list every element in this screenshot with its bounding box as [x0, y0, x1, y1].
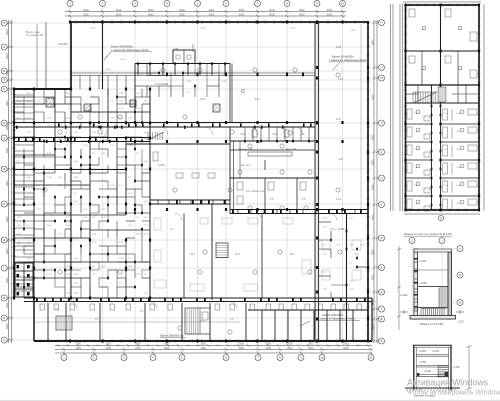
svg-text:см. серию 1.432: см. серию 1.432	[26, 35, 44, 37]
svg-text:6000: 6000	[299, 13, 305, 16]
exterior bottom wall	[34, 340, 372, 342]
svg-text:6000: 6000	[6, 302, 9, 308]
svg-text:Разрез 1-1 М 1:50: Разрез 1-1 М 1:50	[420, 322, 444, 326]
axis bubble top 8	[284, 0, 290, 6]
svg-text:Л: Л	[381, 121, 383, 125]
stair flight upper	[439, 288, 448, 308]
axis bubble bottom 1	[61, 355, 67, 361]
svg-text:6000: 6000	[6, 100, 9, 106]
note annotation right hall	[329, 45, 367, 70]
svg-text:Н: Н	[380, 66, 382, 70]
svg-text:+3,300: +3,300	[419, 260, 427, 263]
note annotation upper left	[104, 44, 245, 93]
svg-text:16,4: 16,4	[330, 228, 335, 231]
axis bubble top 6	[223, 0, 229, 6]
svg-text:3000: 3000	[201, 343, 207, 346]
stair block south-west	[56, 316, 72, 330]
axis bubble left П	[1, 20, 7, 26]
svg-text:6000: 6000	[269, 9, 275, 12]
wing upper room inner partitions	[406, 51, 480, 103]
svg-text:4,200: 4,200	[120, 59, 126, 61]
section detail left wall	[413, 345, 415, 390]
svg-text:Сан.узел 2АБ: Сан.узел 2АБ	[238, 148, 253, 151]
cluster top wall	[230, 149, 315, 151]
upper rooms west wall	[134, 64, 136, 123]
stair detail bubble B	[457, 272, 463, 278]
svg-text:Л: Л	[3, 78, 5, 82]
svg-text:1,20: 1,20	[240, 134, 245, 136]
upper rooms door marks	[158, 72, 196, 88]
svg-text:36,4: 36,4	[235, 253, 240, 256]
second corridor wall north	[14, 137, 150, 139]
svg-text:3000: 3000	[135, 343, 141, 346]
section detail ground line	[405, 387, 460, 389]
wing wall y103	[406, 102, 480, 104]
stair detail bubble left	[409, 238, 415, 244]
upper shaft block	[173, 50, 195, 64]
svg-text:6000: 6000	[239, 13, 245, 16]
axis bubble right 2	[379, 65, 385, 71]
svg-text:1,20: 1,20	[272, 134, 277, 136]
svg-text:3000: 3000	[287, 343, 293, 346]
stair detail left dim line	[397, 246, 401, 330]
wing middle wall horizontal	[406, 50, 480, 52]
svg-text:4,200: 4,200	[350, 30, 356, 32]
wing bottom dimension	[404, 213, 480, 215]
wing room labels	[414, 29, 463, 205]
svg-text:Д: Д	[3, 238, 5, 242]
svg-text:В: В	[381, 317, 383, 321]
top-left dim line x37	[36, 24, 38, 89]
svg-text:6000: 6000	[371, 274, 374, 280]
axis bubble top 2	[100, 0, 106, 6]
svg-text:с шагом по Фрагменту Плана: с шагом по Фрагменту Плана	[318, 316, 355, 320]
exterior window ticks bottom wall	[40, 339, 364, 343]
axis bubble top 3	[132, 0, 138, 6]
top dimension lines	[65, 10, 346, 18]
svg-text:3000: 3000	[343, 343, 349, 346]
svg-text:6000: 6000	[239, 9, 245, 12]
stair block centre	[216, 243, 228, 258]
axis bubble left Е	[1, 201, 7, 207]
axis bubble right 8	[379, 235, 385, 241]
exterior window ticks right wall	[366, 28, 370, 334]
service band wall south	[230, 213, 368, 215]
svg-text:А: А	[3, 338, 5, 342]
exterior window ticks top wall	[76, 20, 364, 24]
svg-text:-1,200: -1,200	[337, 227, 345, 231]
svg-text:6000: 6000	[6, 323, 9, 329]
closet row wall north	[150, 199, 230, 201]
mid vertical wall	[211, 204, 213, 300]
svg-text:6000: 6000	[148, 9, 154, 12]
svg-text:Разрез по лест. кл. (осям 4-1): Разрез по лест. кл. (осям 4-1) М 1:50	[404, 232, 452, 236]
service band partitions	[158, 200, 355, 214]
column grid verticals	[70, 7, 343, 345]
upper rooms east wall	[229, 64, 231, 123]
svg-text:6000: 6000	[116, 13, 122, 16]
stair detail top slab	[414, 249, 452, 252]
svg-text:Чтобы активировать Windows, пе: Чтобы активировать Windows, перейдите в …	[407, 388, 500, 396]
axis bubble bottom 7	[255, 355, 261, 361]
svg-text:150,2: 150,2	[200, 98, 207, 101]
svg-text:6000: 6000	[371, 184, 374, 190]
stair detail bottom ticks	[400, 310, 464, 314]
svg-text:3000: 3000	[164, 343, 170, 346]
axis bubble top 4	[164, 0, 170, 6]
corridor door blobs north	[16, 123, 366, 301]
section detail texts	[419, 351, 460, 373]
wing column markers	[404, 4, 480, 212]
wing room furniture	[407, 109, 477, 211]
svg-text:3000: 3000	[266, 343, 272, 346]
svg-text:11: 11	[369, 356, 372, 360]
svg-text:П: П	[3, 21, 5, 25]
south corridor wall south	[24, 301, 372, 303]
left dim rotated numbers	[6, 29, 9, 329]
stair detail right bubble stems	[452, 249, 458, 303]
svg-text:гард. 15,2: гард. 15,2	[240, 165, 251, 167]
axis bubble top 7	[255, 0, 261, 6]
axis bubble right 9	[379, 265, 385, 271]
bottom dimension lines	[55, 344, 373, 354]
hall room labels	[55, 78, 359, 323]
closet row dividers	[245, 127, 309, 141]
svg-text:6000: 6000	[179, 13, 185, 16]
wing wall y85	[406, 84, 480, 86]
exterior right wall	[367, 22, 369, 341]
axis bubble bottom 9	[298, 355, 304, 361]
svg-text:+1,650: +1,650	[419, 362, 427, 364]
svg-text:П: П	[380, 21, 382, 25]
svg-text:+1,650: +1,650	[419, 282, 427, 285]
axis bubble right 12	[379, 316, 385, 322]
svg-text:В: В	[3, 296, 5, 300]
svg-text:З: З	[3, 136, 5, 140]
svg-text:4,200: 4,200	[105, 69, 111, 71]
svg-text:6000: 6000	[83, 9, 89, 12]
axis bubble right 11	[379, 306, 385, 312]
axis bubble right 13	[379, 338, 385, 344]
column grid horizontals	[7, 23, 372, 340]
stair block south-centre	[185, 308, 210, 334]
south-east rooms labels	[322, 218, 365, 291]
svg-text:6000: 6000	[371, 159, 374, 165]
svg-text:10: 10	[320, 356, 324, 360]
svg-text:+0,000: +0,000	[160, 82, 169, 86]
svg-text:6000: 6000	[6, 147, 9, 153]
svg-text:6000: 6000	[6, 216, 9, 222]
svg-text:6000: 6000	[6, 180, 9, 186]
left zone partition walls	[14, 89, 150, 298]
svg-text:И: И	[3, 121, 5, 125]
svg-text:Ж: Ж	[380, 236, 383, 240]
wing stair hatch	[413, 92, 437, 103]
svg-text:Балки 300х600(h): Балки 300х600(h)	[332, 55, 354, 59]
svg-text:Проем 1500х600 (Н): Проем 1500х600 (Н)	[160, 335, 184, 338]
left zone main partitions	[14, 89, 150, 298]
svg-text:Б: Б	[381, 339, 383, 343]
axis bubble left Л	[1, 77, 7, 83]
axis bubble bottom 4	[150, 355, 156, 361]
svg-text:3000: 3000	[135, 347, 141, 350]
section detail floor lines	[416, 355, 448, 377]
svg-text:Проем 1500х600: Проем 1500х600	[322, 313, 343, 317]
axis bubble right 3	[379, 75, 385, 81]
top-left tiny note	[26, 32, 44, 37]
axis bubble bottom 3	[121, 355, 127, 361]
south room row top wall	[248, 309, 368, 311]
svg-text:4,200: 4,200	[90, 28, 96, 30]
bottom room partitions	[48, 303, 353, 341]
svg-text:Б: Б	[459, 273, 461, 277]
axis bubble right 7	[379, 202, 385, 208]
axis bubble right 4	[379, 120, 385, 126]
room number circles	[43, 68, 342, 334]
svg-text:1,20: 1,20	[300, 134, 305, 136]
right wing window ticks	[404, 3, 481, 211]
section detail top slab	[413, 344, 452, 346]
upper-left partition x46	[45, 22, 47, 89]
sanitary room dividers	[265, 160, 297, 214]
axis bubble bottom 5	[179, 355, 185, 361]
section detail small marks	[417, 372, 448, 377]
upper-left partition x102.5	[102, 22, 104, 89]
svg-text:6000: 6000	[6, 70, 9, 76]
svg-text:с шагом 6м обвязочные балки: с шагом 6м обвязочные балки	[329, 58, 367, 62]
svg-text:3,09: 3,09	[338, 78, 343, 81]
bottom border line	[0, 399, 500, 401]
svg-text:3000: 3000	[239, 347, 245, 350]
svg-text:Внутр. стена: Внутр. стена	[26, 32, 40, 34]
bottom rooms fixtures	[34, 304, 362, 322]
stair flight lower hatch	[421, 309, 446, 316]
wing bottom bubble	[438, 215, 443, 220]
svg-text:6000: 6000	[371, 249, 374, 255]
axis bubble bottom 11	[368, 355, 374, 361]
svg-text:Балки 300х600(h): Балки 300х600(h)	[111, 45, 133, 49]
axis bubble left Б	[1, 315, 7, 321]
svg-text:3000: 3000	[76, 343, 82, 346]
axis bubble left Г	[1, 265, 7, 271]
corridor wall south	[14, 126, 317, 128]
stair landing line	[418, 286, 449, 288]
svg-text:-1,200: -1,200	[457, 322, 464, 324]
axis bubble right 5	[379, 149, 385, 155]
small stair mid-left	[148, 132, 164, 140]
hall upper wall blobs	[166, 72, 304, 76]
svg-text:6000: 6000	[327, 9, 333, 12]
axis bubble left Д	[1, 237, 7, 243]
right wing top dimension line	[403, 1, 481, 3]
svg-text:6000: 6000	[6, 53, 9, 59]
svg-text:З: З	[381, 203, 383, 207]
wing corridor clutter	[431, 105, 442, 207]
svg-text:6000: 6000	[299, 9, 305, 12]
svg-text:1,16: 1,16	[336, 45, 342, 49]
axis bubble right 1	[379, 20, 385, 26]
svg-text:Е: Е	[3, 202, 5, 206]
upper rooms partition walls	[135, 64, 219, 98]
big room fixtures	[153, 152, 215, 178]
svg-text:с шагом 6м обвязочные балки: с шагом 6м обвязочные балки	[111, 48, 149, 52]
upper rooms labels	[139, 74, 228, 93]
left dimension lines	[7, 20, 13, 343]
upper rooms strong verticals	[135, 64, 230, 76]
svg-text:h=3,300: h=3,300	[58, 42, 68, 46]
bottom-left dark cluster	[15, 263, 33, 297]
svg-text:6000: 6000	[148, 13, 154, 16]
svg-text:2,09: 2,09	[173, 47, 179, 51]
wing room partition rows	[406, 124, 480, 196]
section detail stair block	[438, 366, 449, 378]
axis bubble bottom 8	[277, 355, 283, 361]
svg-text:6000: 6000	[371, 214, 374, 220]
svg-text:3000: 3000	[343, 347, 349, 350]
stair detail mid landing extra	[418, 269, 449, 271]
right dimension lines	[373, 20, 379, 343]
stair detail bubble right	[439, 238, 445, 244]
wing room number circles	[416, 26, 464, 204]
sanitary labels	[238, 134, 306, 201]
exterior window ticks left wall	[12, 94, 16, 292]
svg-text:З,09: З,09	[338, 158, 343, 161]
centre zone main partitions	[184, 64, 262, 299]
svg-text:А: А	[459, 247, 461, 251]
door swing arcs	[60, 127, 337, 309]
upper mid horizontal wall	[126, 143, 230, 145]
upper band room stubs	[80, 76, 126, 90]
sanitary room circles	[238, 144, 312, 210]
wing corridor wall west	[431, 85, 433, 210]
top interior tiny texts	[90, 28, 356, 72]
svg-text:+3,150: +3,150	[432, 351, 440, 353]
svg-text:3000: 3000	[106, 347, 112, 350]
main hall west wall	[315, 23, 319, 341]
svg-text:Ж: Ж	[3, 167, 6, 171]
axis bubble left Ж	[1, 166, 7, 172]
note annotation bottom	[300, 313, 360, 326]
south corridor wall north	[24, 297, 372, 299]
svg-text:Б: Б	[3, 316, 5, 320]
svg-text:⊥: ⊥	[105, 55, 108, 59]
svg-text:3000: 3000	[164, 347, 170, 350]
svg-text:6000: 6000	[6, 124, 9, 130]
bottom dimension numbers	[76, 343, 350, 350]
svg-text:3000: 3000	[266, 347, 272, 350]
section detail ground hatch	[406, 388, 456, 392]
shaft hatch boxes	[46, 98, 54, 107]
axis bubble left И	[1, 120, 7, 126]
svg-text:3000: 3000	[106, 343, 112, 346]
stair detail left wall blocks	[414, 252, 418, 318]
axis bubble bottom 10	[319, 355, 325, 361]
svg-text:+0,000: +0,000	[424, 371, 432, 373]
stair detail bubble C	[457, 300, 463, 306]
svg-text:В: В	[459, 301, 461, 305]
svg-text:+3,300: +3,300	[419, 351, 427, 353]
axis bubble top 1	[67, 0, 73, 6]
section detail right wall	[450, 345, 452, 390]
svg-text:3000: 3000	[308, 343, 314, 346]
right-bottom edge wall	[371, 298, 373, 341]
svg-text:Н: Н	[3, 45, 5, 49]
big room light furniture	[154, 218, 361, 291]
stair detail bubble A	[457, 246, 463, 252]
closet row walls	[230, 127, 315, 214]
axis bubble left А	[1, 337, 7, 343]
right wing left dimension lines	[391, 4, 403, 211]
svg-text:6000: 6000	[371, 39, 374, 45]
hall partition wall	[346, 213, 348, 341]
stair detail left wall	[414, 249, 418, 319]
sanitary fixtures	[237, 130, 306, 204]
south-east rooms partition walls	[319, 222, 368, 298]
svg-text:+0,000: +0,000	[400, 294, 408, 297]
hall inner face line	[360, 24, 362, 209]
closet row blobs	[244, 140, 310, 143]
column section markers	[13, 21, 369, 343]
svg-text:Активация Windows: Активация Windows	[407, 377, 489, 387]
wing corridor wall east	[440, 85, 442, 210]
exterior left lower wall	[33, 298, 35, 341]
axis bubble top 10	[340, 0, 346, 6]
exterior upper-left wall	[70, 22, 72, 89]
left zone labels	[17, 93, 149, 295]
svg-text:3000: 3000	[239, 343, 245, 346]
svg-text:6000: 6000	[269, 13, 275, 16]
second corridor wall south	[14, 141, 150, 143]
svg-text:6000: 6000	[179, 9, 185, 12]
upper rooms top blobs	[137, 62, 226, 64]
service band wall north	[230, 209, 368, 211]
stair wall window ticks	[413, 258, 418, 308]
wing middle wall vertical	[440, 5, 442, 85]
south-east rooms door marks	[330, 230, 358, 287]
upper hall wall line 2	[71, 75, 316, 77]
axis bubble top 5	[195, 0, 201, 6]
svg-text:6000: 6000	[116, 9, 122, 12]
axis bubble left К	[1, 86, 7, 92]
corridor wall north	[14, 122, 317, 124]
svg-text:4,200: 4,200	[200, 28, 206, 30]
svg-text:6000: 6000	[83, 13, 89, 16]
svg-text:12,8: 12,8	[336, 118, 341, 121]
axis bubble right 10	[379, 289, 385, 295]
axis bubble left В	[1, 295, 7, 301]
svg-text:6000: 6000	[6, 29, 9, 35]
svg-text:к.Кл. Жизни и Лин: к.Кл. Жизни и Лин	[246, 191, 266, 193]
svg-text:4,200: 4,200	[290, 28, 296, 30]
note above bottom wall	[160, 335, 186, 338]
section detail right dim line	[467, 346, 472, 390]
svg-text:10: 10	[341, 2, 345, 6]
svg-text:3000: 3000	[201, 347, 207, 350]
svg-text:6000: 6000	[371, 94, 374, 100]
top dimension numbers	[83, 9, 333, 17]
axis bubble top 9	[314, 0, 320, 6]
stair detail right wall	[448, 252, 452, 319]
upper hall wall line 1	[71, 72, 316, 74]
exterior top wall	[71, 21, 368, 23]
right wing exterior walls	[405, 5, 480, 210]
axis bubble bottom 2	[91, 355, 97, 361]
wing upper room furniture	[409, 9, 477, 78]
stair detail bubble stems	[412, 244, 442, 321]
svg-text:15,88: 15,88	[158, 163, 165, 167]
left strip cell lines	[14, 95, 34, 291]
stair detail bottom slab	[410, 316, 456, 320]
